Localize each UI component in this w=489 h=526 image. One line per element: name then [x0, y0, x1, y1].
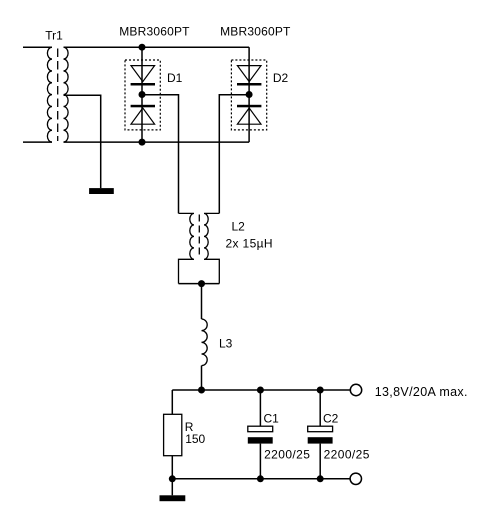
wire D2 cathode tap — [219, 95, 249, 214]
svg-text:MBR3060PT: MBR3060PT — [220, 24, 291, 38]
diode package D2 — [231, 60, 266, 130]
terminal positive output — [350, 384, 361, 395]
svg-text:C2: C2 — [323, 412, 339, 426]
svg-text:13,8V/20A max.: 13,8V/20A max. — [375, 385, 468, 399]
wire bottom rail to ground — [171, 479, 173, 496]
svg-text:L3: L3 — [219, 337, 233, 351]
wire D2 center line — [248, 47, 250, 142]
wire output rail to C1 — [259, 390, 261, 426]
wire transformer center tap to ground — [64, 95, 101, 188]
resistor R — [164, 414, 182, 455]
wire top rail — [64, 46, 250, 48]
junction dot C2 at output rail — [317, 387, 324, 394]
svg-text:D2: D2 — [273, 71, 289, 85]
wire primary top lead — [23, 46, 52, 48]
svg-text:L2: L2 — [232, 219, 246, 233]
svg-text:MBR3060PT: MBR3060PT — [119, 24, 190, 38]
wire bottom rail — [64, 141, 250, 143]
terminal negative output — [350, 473, 361, 484]
wire output rail to C2 — [319, 390, 321, 426]
inductor L2 core — [198, 215, 200, 259]
junction dot R at bottom rail — [169, 475, 176, 482]
svg-text:Tr1: Tr1 — [45, 29, 63, 43]
junction dot D1 common cathode — [139, 91, 146, 98]
junction dot D2 common cathode — [246, 91, 253, 98]
capacitor C2 positive plate — [308, 426, 333, 432]
transformer Tr1 primary winding — [47, 47, 52, 142]
svg-text:150: 150 — [185, 432, 205, 446]
wire resistor to bottom rail — [171, 456, 173, 479]
transformer Tr1 core — [57, 49, 59, 142]
inductor L2 winding A — [179, 213, 195, 283]
wire D1 center line — [141, 47, 143, 142]
svg-text:2x 15µH: 2x 15µH — [226, 236, 273, 250]
junction dot C1 at output rail — [257, 387, 264, 394]
wire L3 to output rail — [201, 366, 203, 390]
inductor L3 — [202, 319, 208, 366]
svg-text:2200/25: 2200/25 — [324, 448, 370, 462]
junction dot L3 at output rail — [198, 387, 205, 394]
wire L2 output bar — [179, 283, 220, 285]
svg-text:D1: D1 — [167, 71, 183, 85]
wire output rail — [172, 389, 350, 391]
wire C1 to bottom rail — [259, 444, 261, 479]
svg-text:C1: C1 — [264, 412, 280, 426]
wire D1 cathode tap — [142, 95, 179, 214]
capacitor C2 negative plate — [308, 437, 333, 443]
junction dot C1 at bottom rail — [257, 475, 264, 482]
inductor L2 winding B — [204, 213, 219, 283]
junction dot L2 output — [198, 280, 205, 287]
wire L2 to L3 — [201, 284, 203, 319]
junction dot D1 anode bottom rail — [139, 139, 146, 146]
junction dot C2 at bottom rail — [317, 475, 324, 482]
wire bottom rail — [172, 478, 350, 480]
capacitor C1 positive plate — [248, 426, 273, 432]
wire primary bottom lead — [23, 141, 52, 143]
junction dot D1 anode top rail — [139, 44, 146, 51]
svg-text:2200/25: 2200/25 — [264, 448, 310, 462]
ground (output) — [160, 495, 186, 501]
transformer Tr1 secondary winding — [64, 47, 69, 142]
capacitor C1 negative plate — [248, 437, 273, 443]
diode package D1 — [125, 60, 160, 130]
wire output rail to resistor — [171, 390, 173, 414]
wire C2 to bottom rail — [319, 444, 321, 479]
ground (transformer center tap) — [89, 188, 114, 194]
